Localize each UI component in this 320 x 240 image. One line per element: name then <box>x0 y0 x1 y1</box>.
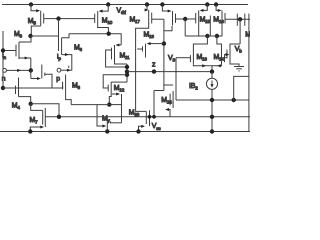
svg-text:ip: ip <box>57 54 61 62</box>
wire M3 source down to node n <box>30 58 32 70</box>
wire M13 source <box>193 65 212 72</box>
node IB2 stem crossing <box>210 98 214 102</box>
wire M16 drain to M14 <box>217 36 222 53</box>
wire p input <box>61 69 72 71</box>
svg-text:M11: M11 <box>120 53 131 61</box>
arrow M1b source <box>37 77 41 80</box>
wire M16 drain <box>217 26 222 36</box>
wire My to Vss rail <box>106 126 108 132</box>
transistor M20 <box>229 47 231 61</box>
wire M4 source stub <box>18 78 20 84</box>
wire node to drop <box>109 104 121 106</box>
wire right edge vertical <box>248 26 250 132</box>
node bottom bus junction left <box>57 115 61 119</box>
wire M3 drain to node A <box>19 37 31 43</box>
wire M8 drain stub <box>65 75 67 80</box>
wire right drop to My gate <box>121 94 123 123</box>
node left bus / M1 gate <box>1 86 5 90</box>
wire node to bottom bus <box>31 104 59 117</box>
node Vss rail junction IB2 <box>210 129 214 133</box>
transistor M13 <box>192 53 194 65</box>
node Vss rail junction mid <box>136 129 140 133</box>
wire M11 drain <box>115 62 128 64</box>
wire M14 source <box>212 65 222 66</box>
node jog bus junction <box>152 115 156 119</box>
current source IB2 circle <box>206 78 217 89</box>
terminal n circle <box>3 69 7 73</box>
wire drain cross-connect <box>207 35 217 37</box>
wire M20 source to ground <box>230 61 239 67</box>
transistor M24 <box>172 91 174 108</box>
wire M23 source from rail <box>139 126 142 131</box>
wire IB2 arrow shaft <box>211 81 213 86</box>
arrow p input current <box>67 69 71 72</box>
node gate wire junction <box>183 17 187 21</box>
transistor M5 <box>40 11 42 26</box>
arrow My source <box>103 124 107 127</box>
svg-text:Vss: Vss <box>152 123 162 131</box>
transistor M4 <box>18 83 20 97</box>
transistor M1b <box>41 70 43 79</box>
svg-text:M6: M6 <box>74 45 83 53</box>
transistor M23 channel bar <box>149 110 151 126</box>
arrow M14 source <box>217 64 221 67</box>
transistor M14 <box>221 53 223 65</box>
transistor M23 gate bar <box>145 111 147 124</box>
arrow M11 source <box>116 43 120 46</box>
wire M14 gate stub <box>225 57 228 59</box>
wire M16 gate lead to edge <box>225 18 250 20</box>
node n junction <box>29 68 33 72</box>
arrow M16 source <box>218 9 222 12</box>
svg-text:M13: M13 <box>197 54 208 62</box>
wire V3 column <box>175 58 177 100</box>
wire M15 source from Vdd <box>203 5 207 11</box>
wire M24 source from bus <box>167 110 170 117</box>
svg-text:V3: V3 <box>168 55 175 63</box>
wire tail to IB2 <box>211 72 213 79</box>
svg-text:M5: M5 <box>28 18 37 26</box>
node Vdd rail junction x=216.1 <box>214 2 218 6</box>
node M5 gate <box>56 16 60 20</box>
node z column c <box>125 73 129 77</box>
wire M8 source down <box>66 92 72 105</box>
svg-text:M15: M15 <box>200 17 211 25</box>
wire M20 arrow seg <box>224 54 227 56</box>
arrow M7 source <box>40 125 44 128</box>
transistor M22 channel bar <box>248 14 250 26</box>
arrow M18 source <box>147 42 151 45</box>
svg-text:M14: M14 <box>214 54 225 62</box>
wire M1b drain stub <box>41 65 43 71</box>
node Vss rail junction M7 <box>28 129 32 133</box>
transistor M17 <box>148 10 150 26</box>
wire M15 drain to M13 <box>193 36 207 53</box>
svg-text:Vdd: Vdd <box>117 8 127 16</box>
wire M18 gate stub <box>137 48 142 50</box>
wire T2a source from Vdd <box>162 5 168 12</box>
wire mid bus <box>69 33 122 35</box>
wire My drain stub <box>106 117 108 119</box>
transistor M11 <box>114 45 116 62</box>
wire M10 source from Vdd <box>103 5 109 12</box>
node M18 source junction <box>162 41 166 45</box>
wire M16 source from Vdd <box>216 5 218 11</box>
node M23 drain on bus <box>148 115 152 119</box>
svg-text:in: in <box>2 53 6 61</box>
arrow M3 source <box>25 56 29 59</box>
wire T2a gate to M15 gate <box>176 18 196 20</box>
node bus junction IB2 <box>210 115 214 119</box>
wire node n down <box>30 70 32 78</box>
wire left gate bus <box>2 31 4 88</box>
wire gate to M15 drain node <box>184 19 186 36</box>
arrow M17 source <box>145 8 149 11</box>
arrow IB2 down <box>210 84 213 87</box>
wire mid bus drop <box>120 34 122 45</box>
wire right loop <box>234 76 249 100</box>
arrow M10 source <box>99 10 103 13</box>
node Vdd rail junction x=147 <box>145 2 149 6</box>
svg-text:M8: M8 <box>72 83 81 91</box>
arrow M24 source <box>165 108 169 111</box>
transistor M16 <box>221 10 223 26</box>
arrow M5 source <box>36 9 40 12</box>
wire mid low bus <box>71 104 109 106</box>
wire IB2 to Vss rail <box>211 89 213 131</box>
wire M12 drain elbow <box>111 81 127 83</box>
svg-text:M3: M3 <box>14 31 23 39</box>
svg-text:M7: M7 <box>30 117 39 125</box>
transistor M3 <box>18 42 20 59</box>
transistor M6 channel bar <box>61 38 63 55</box>
svg-text:M23: M23 <box>129 110 140 118</box>
transistor M21 channel bar <box>236 14 238 26</box>
wire M20 drain to Vb node <box>230 44 240 47</box>
arrow M13 source <box>202 64 206 67</box>
wire M11 gate lead <box>106 50 127 67</box>
wire z column vertical <box>126 64 128 82</box>
wire M24 drain elbow <box>164 84 173 86</box>
wire n input <box>7 69 31 71</box>
svg-text:p: p <box>56 76 60 83</box>
wire M6 drain to mid bus <box>62 34 69 38</box>
arrow n input current <box>17 69 21 72</box>
wire M10 drain to mid bus <box>98 26 109 34</box>
arrow M6 source <box>65 53 69 56</box>
node M15 drain <box>205 34 209 38</box>
svg-text:M16: M16 <box>213 17 224 25</box>
node Vdd rail junction x=31 <box>29 2 33 6</box>
transistor M22 gate bar <box>244 14 246 26</box>
arrow M12 source <box>116 92 120 95</box>
node A <box>28 34 32 38</box>
transistor M8 <box>65 79 67 92</box>
transistor M10 <box>97 11 99 25</box>
wire M8 gate from bus <box>62 86 64 89</box>
wire M3 source <box>19 57 31 59</box>
wire z node <box>127 71 212 73</box>
node Vdd rail junction x=162.4 <box>160 2 164 6</box>
wire M3 gate lead <box>3 50 16 52</box>
arrow M20 <box>226 53 230 56</box>
svg-text:M12: M12 <box>114 85 125 93</box>
arrow T2a source <box>168 9 172 12</box>
wire mid vertical <box>209 16 211 37</box>
wire M11 source <box>119 44 122 46</box>
transistor M12 <box>110 82 112 94</box>
node left bus / M3 gate <box>1 48 5 52</box>
wire M15 drain <box>199 26 208 36</box>
wire Vb node down <box>239 19 241 44</box>
wire lower right bus <box>176 99 249 101</box>
svg-text:n: n <box>2 76 6 83</box>
wire jog horizontal <box>154 90 164 92</box>
wire jog vertical <box>153 91 155 117</box>
terminal z dot <box>152 69 156 73</box>
arrow M23 source <box>141 125 145 128</box>
node Vdd rail junction x=108.2 <box>106 2 110 6</box>
wire M17 source from Vdd <box>146 5 148 11</box>
wire M1b gate to bottom bus <box>45 74 52 88</box>
svg-text:M4: M4 <box>12 103 21 111</box>
wire to T2a drain <box>164 26 172 31</box>
node mid bus junction <box>107 32 111 36</box>
node Vss rail junction left <box>105 129 109 133</box>
ground symbol <box>234 66 244 68</box>
node z column a <box>125 65 129 69</box>
node M16 drain <box>215 34 219 38</box>
node Vb gate <box>238 17 242 21</box>
wire M6 source to Ta <box>62 55 72 63</box>
wire M5 drain <box>31 26 40 36</box>
wire M17 gate lead <box>152 18 164 20</box>
transistor M2a <box>71 63 73 71</box>
wire M18 drain stub <box>145 54 147 58</box>
wire left mirror gate bus <box>3 87 63 89</box>
node lower right junction <box>232 98 236 102</box>
wire M18 source <box>150 43 164 45</box>
node M4 drain junction <box>29 102 33 106</box>
node tail <box>210 69 214 73</box>
wire Vdd rail <box>2 4 248 6</box>
svg-text:M17: M17 <box>130 17 141 25</box>
transistor M7 channel bar <box>44 108 46 127</box>
wire M12 source down <box>109 94 111 105</box>
transistor M19 <box>172 11 174 26</box>
wire M7 source from rail <box>30 127 40 132</box>
wire T1 drain / M23 gate bus <box>136 26 149 111</box>
node Vdd rail junction x=207.3 <box>205 2 209 6</box>
wire M4 gate lead <box>3 87 15 89</box>
wire Vss rail <box>0 131 250 133</box>
wire M1b source <box>31 78 38 80</box>
wire M12 gate lead <box>103 75 127 88</box>
svg-text:IB2: IB2 <box>189 83 198 91</box>
node z column b <box>125 69 129 73</box>
svg-text:z: z <box>152 62 156 69</box>
wire M5 source from Vdd <box>31 5 37 11</box>
wire right gate column <box>163 19 165 90</box>
wire M5 gate lead to M10 gate <box>44 18 94 20</box>
wire My source path <box>97 105 103 126</box>
node M12 source junction <box>107 102 111 106</box>
terminal p circle <box>57 68 61 72</box>
wire to drain node <box>185 35 207 37</box>
arrow M15 source <box>200 9 204 12</box>
wire M12 source arrow seg <box>112 93 117 95</box>
transistor M15 <box>198 10 200 26</box>
svg-text:M18: M18 <box>144 32 155 40</box>
transistor M18 <box>145 44 147 54</box>
wire My gate lead <box>110 122 121 124</box>
transistor M7 gate bar <box>42 110 44 124</box>
transistor My <box>106 119 108 127</box>
wire node A to gate column <box>31 35 59 37</box>
svg-text:Vb: Vb <box>235 46 242 54</box>
wire gate node down to M6 gate <box>58 19 60 51</box>
wire bottom bus <box>45 116 250 118</box>
svg-text:M10: M10 <box>102 18 113 26</box>
wire M4 drain <box>19 97 31 104</box>
wire M7 gate lead <box>31 104 43 111</box>
wire M13 gate from V3 <box>176 57 190 59</box>
